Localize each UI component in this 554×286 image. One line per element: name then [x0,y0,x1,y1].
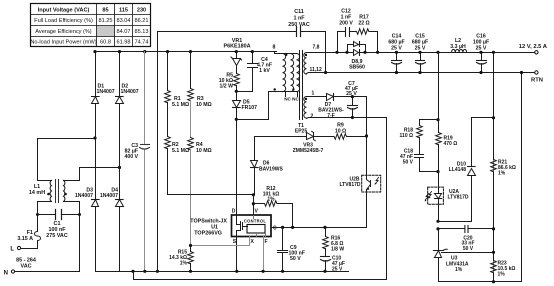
C pin wire [272,227,367,229]
S pin wire [236,237,238,272]
svg-text:200 V: 200 V [339,21,353,27]
wire primary bottom to drain [237,92,269,120]
svg-text:83.04: 83.04 [117,18,131,24]
svg-text:C11: C11 [294,9,304,15]
svg-text:L: L [10,247,14,253]
node bias OV chain [365,134,368,137]
label T1 EP25 [295,123,307,135]
svg-text:115: 115 [119,7,128,13]
svg-text:10 MΩ: 10 MΩ [196,148,212,154]
node opto anode [436,170,439,173]
svg-text:25 V: 25 V [415,46,426,52]
diode D3 1N4007 [75,188,99,207]
svg-text:81.25: 81.25 [99,18,113,24]
snubber C12 [335,9,356,54]
F pin wire [263,237,265,272]
node S bus link [131,270,134,273]
R21 divider wire [493,53,495,282]
resistor R19 [436,120,458,172]
resistor R21 [491,160,516,177]
svg-text:14 mH: 14 mH [29,190,45,196]
resistor R9 [326,123,367,140]
capacitor C4 [237,52,273,92]
node bus R3 [189,50,192,53]
svg-text:N: N [4,271,8,277]
node X junction R15 [189,244,192,247]
svg-text:LL4148: LL4148 [449,167,466,173]
svg-text:470 Ω: 470 Ω [444,141,458,147]
svg-text:3.3 µH: 3.3 µH [450,44,466,50]
optocoupler U2A [425,172,469,222]
svg-text:NC NC: NC NC [284,97,299,102]
bulk capacitor C3 [124,52,149,272]
transformer T1 primary winding [269,45,300,102]
svg-text:110 Ω: 110 Ω [400,133,413,139]
node U3 ref [492,251,495,254]
common-mode choke L1 [29,180,67,203]
svg-text:F: F [265,239,268,245]
svg-text:7,8: 7,8 [313,45,320,51]
svg-text:25 V: 25 V [346,91,357,97]
svg-text:8: 8 [273,45,276,51]
node drain / primary return [235,118,238,121]
svg-text:400 V: 400 V [124,154,138,160]
node S bus R15 [189,270,192,273]
transformer bias winding [304,90,315,119]
capacitor C20 [436,226,495,252]
node S bus S-pin [235,270,238,273]
svg-text:1N4007: 1N4007 [100,193,118,199]
svg-text:1%: 1% [498,272,506,278]
feedback wire pre-L2 down [438,53,440,120]
svg-text:50 V: 50 V [403,160,414,166]
svg-text:2: 2 [311,114,314,120]
wire N to C1 right node [16,215,80,272]
wire bridge left leg [95,52,97,272]
svg-text:5.1 MΩ: 5.1 MΩ [172,102,189,108]
secondary return bus [439,73,522,282]
capacitor C11 [288,9,325,73]
svg-text:FR107: FR107 [242,105,258,111]
wire C1 right to choke [64,202,80,215]
resistor R2 5.1M [165,137,189,195]
svg-text:25 V: 25 V [476,46,487,52]
node S bus C10 [323,270,326,273]
feedback tap pre-L2 [436,51,439,54]
B+ bus [96,51,277,53]
fuse F1 [17,230,40,242]
node AC2 on D2 leg [118,166,121,169]
node R18 stub [436,118,439,121]
svg-text:10 MΩ: 10 MΩ [196,102,212,108]
diode D6 BAV19WS [251,161,284,195]
wire choke right top to AC node 2 [64,168,120,181]
node C11 at RTN [324,71,327,74]
resistor R15 [169,246,193,272]
svg-text:CONTROL: CONTROL [244,219,267,224]
svg-text:50 V: 50 V [290,256,301,262]
svg-text:84.07: 84.07 [117,29,131,35]
node V pin sense junction [252,193,255,196]
resistor R16 [323,228,345,257]
svg-text:5.1 MΩ: 5.1 MΩ [172,148,189,154]
node R23 bottom [492,280,495,283]
TOPSwitch U1 outline [190,209,277,245]
efficiency table [30,4,150,47]
svg-text:250 VAC: 250 VAC [288,22,310,28]
svg-text:61.98: 61.98 [117,40,131,46]
svg-text:LTV817D: LTV817D [448,195,469,201]
svg-text:11,12: 11,12 [310,67,322,73]
resistor R4 10M [188,138,212,246]
label 85-264 VAC [16,258,36,270]
svg-text:74.74: 74.74 [135,40,149,46]
diode D5 FR107 [233,92,258,112]
RTN rail [309,72,535,74]
node C3 bottom [143,270,146,273]
optocoupler U2B [339,175,380,227]
Y-cap drop wire (B- to C11) [157,32,159,272]
terminal 12V output [519,44,548,54]
svg-text:85.13: 85.13 [135,29,149,35]
capacitor C1 [38,210,80,240]
node clamp bottom [235,90,238,93]
wire choke left top to AC node 1 [38,139,96,181]
svg-text:50 V: 50 V [463,246,474,252]
svg-text:230: 230 [137,7,146,13]
svg-text:22 Ω: 22 Ω [358,21,369,27]
svg-text:TOPSwitch-JX: TOPSwitch-JX [190,219,227,225]
svg-text:Full Load Efficiency (%): Full Load Efficiency (%) [34,18,93,24]
V pin wire [253,195,255,216]
resistor R1 5.1M [165,52,189,137]
resistor R18 [400,120,439,155]
wire fuse to C1 node [37,215,39,232]
svg-text:1 nF: 1 nF [293,16,305,22]
diode D1 1N4007 [92,84,115,104]
bias plus wire [366,97,368,175]
resistor R5 10k [219,73,240,92]
svg-text:1%: 1% [180,261,188,267]
svg-text:12 V, 2.5 A: 12 V, 2.5 A [519,44,548,50]
node R12 tap [252,202,255,205]
wire bridge right leg [119,52,121,272]
shunt regulator U3 LMV431A [434,229,494,282]
capacitor C14 [388,34,404,75]
svg-text:1%: 1% [498,171,506,177]
terminal N [4,270,15,277]
capacitor C16 [473,34,489,75]
svg-text:C: C [273,226,277,232]
node S bus F-pin [262,270,265,273]
diode D10 LL4148 [439,118,494,222]
capacitor C9 [278,228,305,272]
svg-text:7-F: 7-F [327,113,335,119]
svg-text:1/8 W: 1/8 W [331,247,344,253]
capacitor C10 [321,256,345,273]
svg-text:1/2 W: 1/2 W [219,84,233,90]
node bus D2 [118,50,121,53]
zener VR1 P6KE180A [224,38,251,74]
node bus C3 [143,50,146,53]
capacitor C18 [400,149,439,172]
node D10 stub [492,116,495,119]
diode D2 1N4007 [116,84,139,104]
bias return wire [309,118,387,280]
capacitor C7 [345,81,358,119]
wire C11 top run [158,31,297,33]
transformer secondary winding [304,45,322,75]
svg-text:VAC: VAC [21,264,32,270]
V-pin sense wire [168,194,254,196]
svg-text:TOP266VG: TOP266VG [194,231,222,237]
node bus R1 [166,50,169,53]
svg-text:ZMM5245B-7: ZMM5245B-7 [293,148,324,154]
node opto cathode D10 [436,220,439,223]
svg-text:1: 1 [312,90,315,96]
node bus VR1 [235,50,238,53]
diode D4 1N4007 [100,188,124,207]
diode D7 BAV21WS [309,94,367,120]
wire C1 left to choke [38,202,52,215]
svg-text:SB560: SB560 [349,65,365,71]
node RTN drop [520,71,523,74]
resistor R23 [491,261,516,278]
resistor R3 10M [188,52,212,138]
svg-text:Input Voltage (VAC): Input Voltage (VAC) [38,7,90,13]
node S bus C9 [281,270,284,273]
node C1 left [36,213,39,216]
node C1 right [78,213,81,216]
transformer core [300,51,303,120]
12V rail [309,52,535,54]
zener VR3 ZMM5245B [255,131,326,160]
svg-text:LTV817D: LTV817D [339,182,360,188]
X pin wire [191,237,250,246]
feedback tap post-L2 [492,51,495,54]
svg-text:85: 85 [102,7,108,13]
lower source link wire [134,272,387,280]
resistor R12 [254,186,293,228]
terminal RTN [531,71,543,84]
node R16 tap [323,226,326,229]
svg-text:60.8: 60.8 [100,40,111,46]
snubber R17 [357,15,380,54]
node AC1 on D1 leg [93,136,96,139]
drain wire [236,108,238,216]
svg-text:1%: 1% [455,267,463,273]
svg-text:RTN: RTN [531,78,543,84]
svg-text:EP25: EP25 [295,129,307,135]
svg-text:1 kV: 1 kV [259,68,270,74]
svg-text:1N4007: 1N4007 [75,193,93,199]
svg-text:275 VAC: 275 VAC [46,233,68,239]
svg-text:D: D [232,209,236,215]
node R12 bottom [291,226,294,229]
svg-text:10 Ω: 10 Ω [335,129,346,135]
capacitor C15 [412,34,428,75]
svg-text:3.15 A: 3.15 A [17,236,33,242]
svg-text:1N4007: 1N4007 [121,89,139,95]
svg-text:86.21: 86.21 [135,18,149,24]
svg-text:No-load Input Power (mW): No-load Input Power (mW) [30,40,96,46]
node bus C4 [251,50,254,53]
svg-text:25 V: 25 V [391,46,402,52]
node bus D1 [93,50,96,53]
primary source bus [96,271,349,273]
diodes D8,9 SB560 [345,42,366,71]
svg-text:Average Efficiency (%): Average Efficiency (%) [35,29,92,35]
svg-text:1%: 1% [267,197,275,203]
svg-text:1N4007: 1N4007 [97,89,115,95]
wire L to fuse [22,241,38,249]
node C9 tap [281,226,284,229]
svg-text:BAV19WS: BAV19WS [259,167,283,173]
svg-text:P6KE180A: P6KE180A [224,43,251,49]
terminal L [10,246,20,252]
inductor L2 [450,38,466,53]
node Y-cap wire bottom [156,270,159,273]
